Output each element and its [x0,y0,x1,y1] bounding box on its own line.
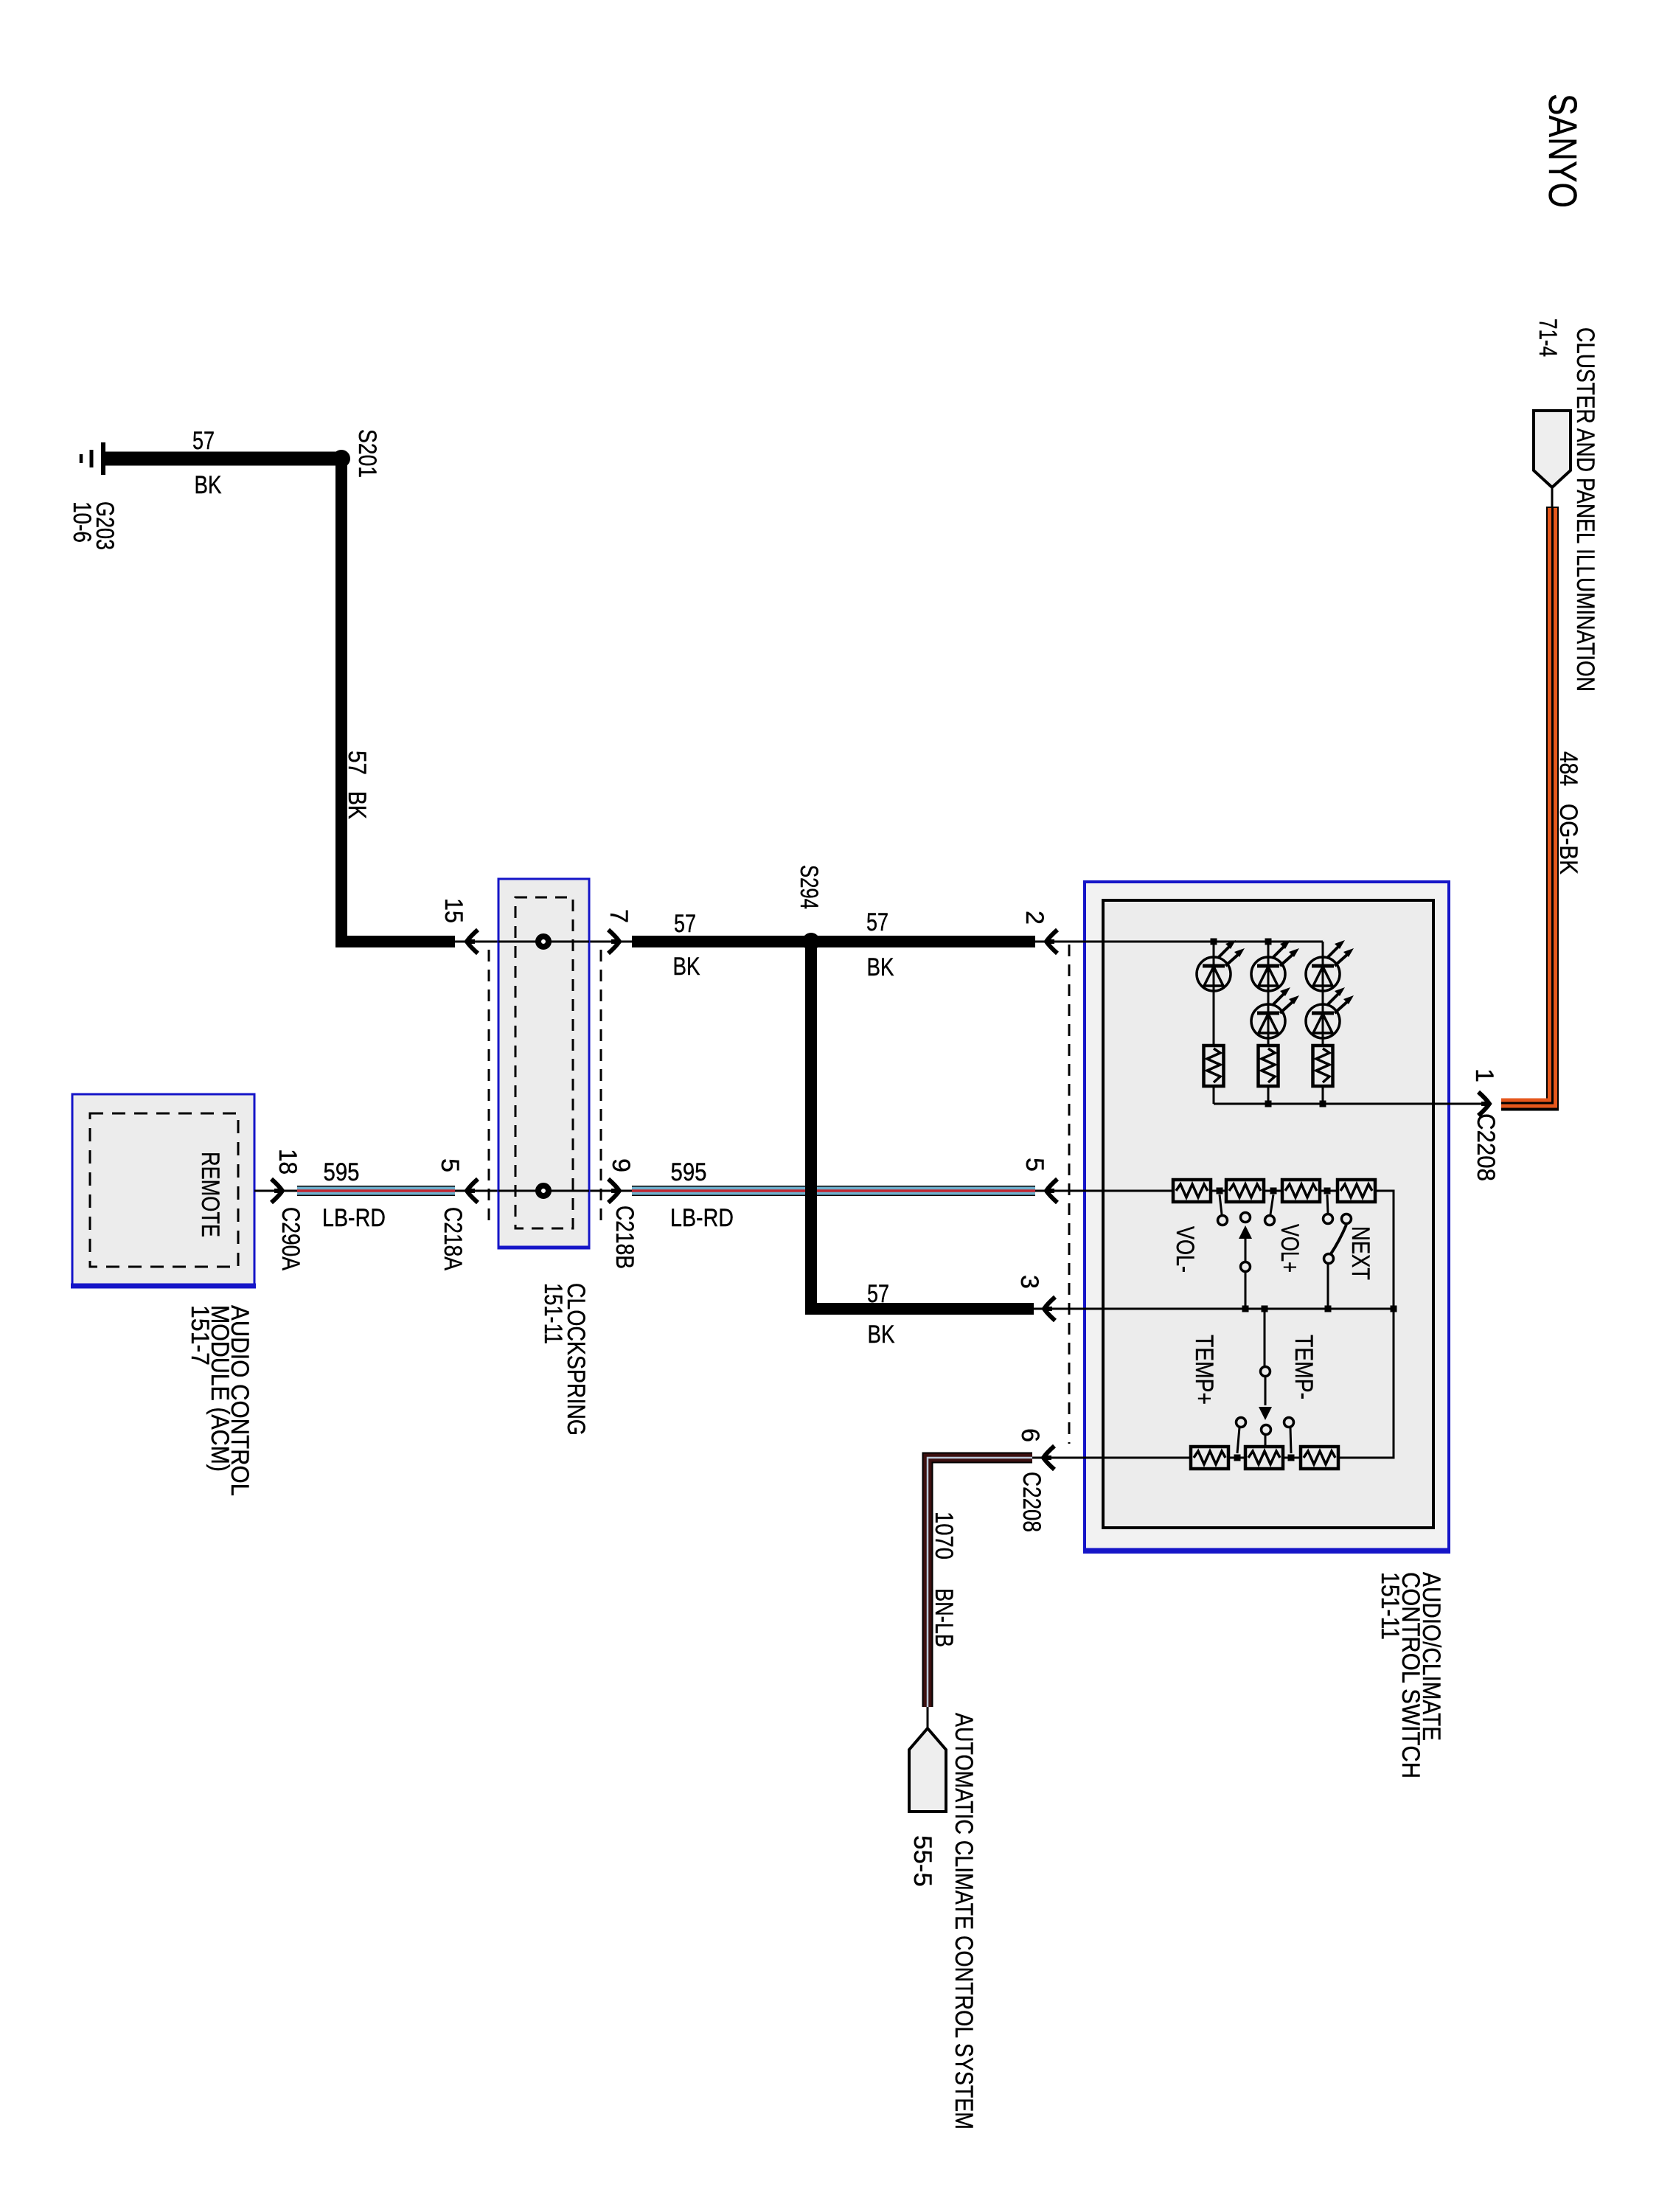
junction R2-R3 [1270,1188,1277,1194]
LED bottom bus / pin 1 line [1214,1103,1489,1105]
svg-text:6: 6 [1016,1428,1044,1442]
svg-text:CLUSTER AND PANEL ILLUMINATION: CLUSTER AND PANEL ILLUMINATION [1571,327,1599,692]
wire 595 LB-RD right segment [632,1186,1035,1196]
resistor ladder R1 [1173,1180,1211,1202]
switch VOL- contact [1218,1194,1228,1225]
resistor ladder R4 [1338,1180,1375,1202]
pin 18 line [254,1190,297,1192]
svg-text:5: 5 [436,1158,464,1172]
internal pin lines [498,941,589,943]
switch outer blue box [1085,882,1449,1552]
switch NEXT [1324,1194,1352,1309]
arrow pin 5 (C218A) [467,1179,478,1203]
clockspring contact ring bottom [538,1186,549,1196]
wire B2-B3 [1283,1457,1301,1459]
svg-text:C2208: C2208 [1018,1472,1046,1532]
dashed connector line C218A [488,950,490,1220]
LED column 3 [1306,940,1354,1104]
dashed connector line C2208 [1068,945,1071,1444]
pin 6 row thin line [1032,1457,1191,1459]
svg-text:57: 57 [192,427,215,455]
svg-text:C290A: C290A [276,1207,305,1270]
svg-text:1: 1 [1470,1068,1498,1082]
switch VOL+ contact [1265,1194,1275,1225]
svg-text:9: 9 [607,1158,635,1172]
svg-text:57: 57 [674,910,696,938]
dashed connector line C218B [600,950,602,1220]
wire R2-R3 [1264,1190,1282,1192]
svg-text:BK: BK [673,953,700,981]
svg-text:NEXT: NEXT [1346,1226,1374,1280]
svg-text:57: 57 [866,908,888,936]
svg-text:LB-RD: LB-RD [322,1204,386,1232]
svg-text:2: 2 [1020,911,1048,925]
junction R1-R2 [1217,1188,1223,1194]
pin 5 line [455,1190,498,1192]
bottom resistor B1 [1191,1447,1228,1469]
junction pin3 bus right end [1391,1306,1397,1312]
arrow pin 9 [608,1179,619,1203]
clockspring box [498,879,589,1248]
ground G203 [81,442,103,475]
svg-text:BK: BK [195,471,222,499]
svg-text:15: 15 [439,898,467,923]
resistor ladder R3 [1282,1180,1320,1202]
wire stub from flag [1551,487,1554,509]
junction VOL pole on pin3 bus [1242,1306,1249,1312]
svg-text:C218B: C218B [611,1206,639,1269]
arrow pin 7 [608,930,619,953]
wire 57 BK S294 down to pin 3 [811,942,1034,1309]
wire R3-R4 [1320,1190,1338,1192]
pin 9 line [589,1190,634,1192]
pin 5 row thin line into box [1035,1190,1173,1192]
svg-text:595: 595 [324,1158,360,1186]
pin 3 row [1034,1308,1394,1310]
wire R4 right side down to bottom row [1338,1191,1394,1458]
svg-text:57: 57 [867,1280,889,1308]
svg-text:55-5: 55-5 [908,1835,936,1887]
pin 7 line [589,941,634,943]
wire R1-R2 [1211,1190,1226,1192]
svg-text:C218A: C218A [439,1207,467,1270]
wire 1070 BN-LB [928,1458,1032,1707]
svg-text:VOL+: VOL+ [1276,1224,1304,1273]
junction NEXT on pin3 bus [1325,1306,1332,1312]
junction bottom bus col2 [1265,1101,1272,1107]
arrow pin 15 [467,930,478,953]
stub to connector [927,1707,929,1728]
clockspring inner dashed box [515,897,573,1228]
svg-text:S294: S294 [795,865,823,909]
TEMP- contact [1284,1418,1294,1454]
wire B1-B2 [1228,1457,1245,1459]
junction LED bus col1 [1211,939,1217,945]
wire 57 BK S201 down to clockspring pin 15 [341,459,455,942]
LED column 1 [1197,940,1245,1104]
junction bottom bus col3 [1320,1101,1326,1107]
svg-text:18: 18 [274,1149,302,1175]
resistor ladder R2 [1226,1180,1264,1202]
wire 57 BK ground to S201 [105,452,341,466]
svg-text:REMOTE: REMOTE [196,1152,224,1237]
pin 15 line [455,941,498,943]
wire 484 OG-BK (orange with black stripe) [1501,507,1553,1105]
connector flag (off-page to cluster illumination) [1534,411,1571,487]
junction TEMP+ contact [1234,1455,1241,1461]
wire 595 LB-RD (ACM to clockspring) [297,1186,455,1196]
arrow pin 2 [1046,930,1057,953]
svg-text:TEMP-: TEMP- [1290,1335,1318,1399]
bottom resistor B2 [1245,1447,1283,1469]
TEMP+ contact [1237,1418,1246,1454]
svg-text:484OG-BK: 484OG-BK [1554,751,1582,874]
svg-text:VOL-: VOL- [1171,1226,1199,1273]
VOL common pole [1239,1213,1252,1310]
wire 57 BK S294 crossing over [805,942,817,1309]
svg-text:7: 7 [605,909,633,923]
svg-text:S201: S201 [353,429,381,478]
svg-text:LB-RD: LB-RD [670,1204,734,1232]
audio control module box [72,1094,254,1287]
svg-text:BK: BK [867,953,894,981]
svg-text:TEMP+: TEMP+ [1190,1335,1218,1405]
arrow pin 6 [1043,1446,1054,1470]
arrow pin 18 (C290A) [271,1179,282,1203]
svg-text:595: 595 [671,1158,707,1186]
svg-text:BK: BK [868,1321,895,1349]
junction TEMP- contact [1288,1455,1295,1461]
TEMP center pole [1259,1309,1272,1447]
junction R3-R4 [1324,1188,1331,1194]
arrow pin 5 [1046,1179,1057,1203]
arrow pin 3 [1044,1297,1055,1321]
svg-text:71-4: 71-4 [1534,319,1562,357]
arrow pin 1 (to C2208) [1478,1092,1489,1116]
splice S201 [333,450,350,467]
wire 57 BK pin7 to pin2 [632,936,1035,947]
clockspring contact ring top [538,936,549,947]
bottom resistor B3 [1301,1447,1338,1469]
svg-text:C2208: C2208 [1472,1113,1500,1181]
svg-text:3: 3 [1015,1275,1043,1289]
svg-text:5: 5 [1020,1158,1048,1172]
junction LED bus col2 [1265,939,1272,945]
splice S294 [802,933,820,950]
switch inner box [1103,900,1433,1528]
ACM inner dashed box [90,1113,238,1267]
svg-text:AUTOMATIC CLIMATE CONTROL SYST: AUTOMATIC CLIMATE CONTROL SYSTEM [950,1713,978,2129]
svg-text:SANYO: SANYO [1540,94,1585,208]
connector flag 55-5 (automatic climate control) [909,1728,946,1812]
LED column 2 [1251,940,1299,1104]
junction TEMP pole on pin3 bus [1262,1306,1268,1312]
pin 2 row: thin line + LED bus [1035,941,1323,943]
